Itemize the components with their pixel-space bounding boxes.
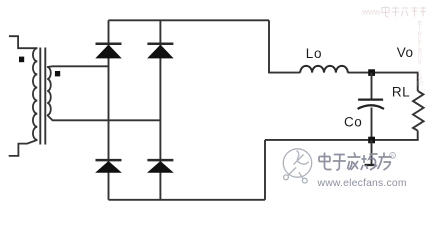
wire top rail [109, 19, 270, 21]
diode D4 bottom-right [147, 160, 173, 172]
svg-text:www.: www. [361, 7, 382, 17]
ground bar [365, 164, 376, 166]
diode D2 top-right [147, 44, 173, 58]
svg-text:Vo: Vo [397, 45, 414, 60]
inductor Lo [300, 66, 348, 73]
transformer T1 primary winding [33, 48, 37, 140]
wire bottom output rail [265, 139, 419, 141]
svg-text:www.elecfans.com: www.elecfans.com [317, 178, 407, 189]
transformer T1 primary bottom lead [9, 140, 38, 156]
transformer T1 primary top lead [9, 36, 37, 48]
transformer T1 core line 2 [44, 48, 46, 145]
char shao [361, 154, 378, 170]
transformer T1 secondary winding [47, 67, 51, 115]
char zi [333, 155, 346, 171]
wire right drop from top rail [268, 20, 270, 72]
resistor RL zigzag [413, 91, 424, 131]
wire RL bottom lead [417, 131, 419, 140]
svg-text:m: m [417, 79, 424, 88]
node junction dot at bottom rail [368, 137, 375, 144]
transformer T1 secondary polarity dot [55, 71, 60, 76]
wire step down [264, 140, 266, 200]
svg-text:Co: Co [344, 115, 362, 130]
wire left diode column [108, 20, 110, 200]
ground stub wire [371, 140, 373, 164]
watermark CJK text dianzifashaoyou [319, 153, 392, 171]
wire output node to RL top [417, 72, 419, 91]
wire inductor to output node [348, 72, 418, 74]
diode D3 bottom-left [96, 160, 122, 172]
wire capacitor top stub [371, 73, 373, 100]
watermark registered mark [390, 153, 396, 159]
svg-text:Lo: Lo [306, 46, 322, 61]
svg-text:RL: RL [392, 85, 410, 100]
watermark logo circle bottom-right [283, 149, 311, 183]
wire capacitor bottom stub [371, 108, 373, 140]
node junction dot at Lo/Co [368, 69, 375, 76]
wire right diode column [159, 20, 161, 200]
wire mid rail to inductor [268, 72, 300, 74]
capacitor Co curved bottom plate [358, 105, 384, 109]
transformer T1 core line 1 [39, 48, 41, 145]
transformer T1 secondary top lead [47, 65, 108, 68]
char fa [348, 153, 361, 171]
faint right-edge vertical watermark elecfans.com [417, 18, 424, 88]
faint top-right watermark www + CJK [361, 6, 426, 17]
wire bridge bottom rail [109, 199, 266, 201]
diode D1 top-left [96, 44, 122, 58]
transformer T1 secondary bottom lead [47, 115, 160, 120]
char you [378, 153, 392, 171]
char dian [319, 153, 332, 170]
capacitor Co top plate [358, 98, 383, 100]
transformer T1 primary polarity dot [19, 57, 24, 63]
